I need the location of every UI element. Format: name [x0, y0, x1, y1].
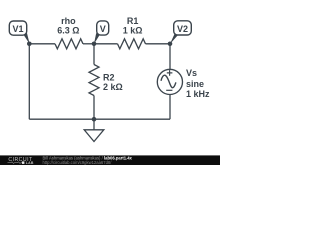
junction node A [27, 42, 32, 47]
wire left branch down [28, 44, 30, 119]
footer logo square [22, 161, 25, 164]
svg-text:2 kΩ: 2 kΩ [103, 82, 123, 92]
svg-text:V1: V1 [12, 24, 23, 34]
ground triangle [84, 130, 104, 142]
wire node B to R1 [94, 43, 118, 45]
svg-text:sine: sine [186, 79, 204, 89]
wire top left A to rho [29, 43, 55, 45]
svg-text:R1: R1 [127, 16, 139, 26]
voltage source plus sign [167, 70, 173, 76]
wire R1 to node C [146, 43, 171, 45]
net flag V2 pointer [170, 33, 178, 44]
net flag V box [97, 21, 109, 35]
voltage source minus sign [166, 89, 172, 91]
svg-text:V: V [100, 24, 106, 34]
svg-text:LAB: LAB [26, 161, 34, 165]
footer logo waveform [8, 162, 22, 164]
wire node B down to R2 [93, 44, 95, 65]
ground stub [93, 119, 95, 130]
resistor R2 (vertical zigzag) [89, 65, 99, 96]
wire node C down to source [169, 44, 171, 70]
svg-text:1 kΩ: 1 kΩ [123, 25, 143, 35]
svg-text:Vs: Vs [186, 68, 197, 78]
net flag V2 box [174, 21, 192, 35]
junction node B [92, 42, 97, 47]
wire bottom [29, 118, 170, 120]
voltage source V_s circle [157, 69, 182, 94]
junction node D (ground) [92, 117, 97, 122]
wire rho to node B [83, 43, 94, 45]
svg-text:V2: V2 [177, 24, 188, 34]
svg-text:R2: R2 [103, 73, 115, 83]
net flag V1 pointer [23, 33, 29, 44]
svg-text:rho: rho [61, 16, 76, 26]
resistor rho (zigzag) [55, 39, 83, 49]
svg-text:6.3 Ω: 6.3 Ω [57, 25, 79, 35]
svg-text:1 kHz: 1 kHz [186, 89, 210, 99]
svg-text:http://circuitlab.com/c9gkw12a: http://circuitlab.com/c9gkw12aa67d8/ [43, 160, 113, 165]
wire R2 to bottom [93, 96, 95, 120]
voltage source sine wave [161, 75, 176, 88]
junction node C [168, 42, 173, 47]
resistor R1 (zigzag) [118, 39, 146, 49]
net flag V pointer [94, 33, 100, 44]
net flag V1 box [9, 21, 26, 35]
wire source bottom to bottom wire [169, 95, 171, 120]
footer bar [0, 155, 220, 165]
